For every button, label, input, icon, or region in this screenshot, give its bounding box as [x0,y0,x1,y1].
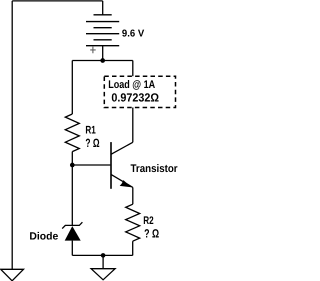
transistor Q1 collector diagonal [111,142,133,154]
zener diode D1 triangle [65,226,81,241]
wire top rail [12,0,103,2]
ground left [1,269,24,281]
svg-text:Transistor: Transistor [131,163,179,175]
wire emitter lead [132,187,134,204]
battery B1 [86,15,119,46]
resistor R1 [65,114,79,152]
transistor Q1 emitter diagonal [111,174,133,187]
wire diode bottom lead [71,241,73,256]
wire load bottom to collector [132,108,134,143]
wire bottom rail [72,254,132,256]
svg-text:R2: R2 [143,215,153,227]
svg-text:? Ω: ? Ω [144,227,159,241]
wire load top lead [132,61,134,77]
wire R1 top lead [71,61,73,115]
svg-text:Load @ 1A: Load @ 1A [108,79,155,91]
node junction battery positive [100,58,105,63]
battery B1 plus sign [90,47,96,54]
wire mid rail [72,60,133,62]
zener diode D1 cathode bar [62,222,82,228]
ground center [91,269,115,280]
svg-text:? Ω: ? Ω [85,136,99,150]
svg-text:9.6 V: 9.6 V [122,28,145,39]
node junction ground [101,253,106,258]
battery B1 top lead wire [102,1,104,15]
resistor R2 [126,204,140,241]
node junction base [70,163,75,168]
wire left rail [11,1,13,269]
load box dashed [104,76,175,107]
svg-text:Diode: Diode [29,230,58,242]
transistor Q1 base bar [110,142,112,189]
svg-text:0.97232Ω: 0.97232Ω [111,91,159,105]
wire R2 bottom lead [132,241,134,255]
svg-text:R1: R1 [85,125,95,137]
ground center stub wire [102,255,104,268]
battery B1 bottom lead wire [102,46,104,61]
wire base [72,164,110,166]
transistor Q1 emitter arrow [120,180,132,187]
wire R1 to diode node [71,152,73,226]
